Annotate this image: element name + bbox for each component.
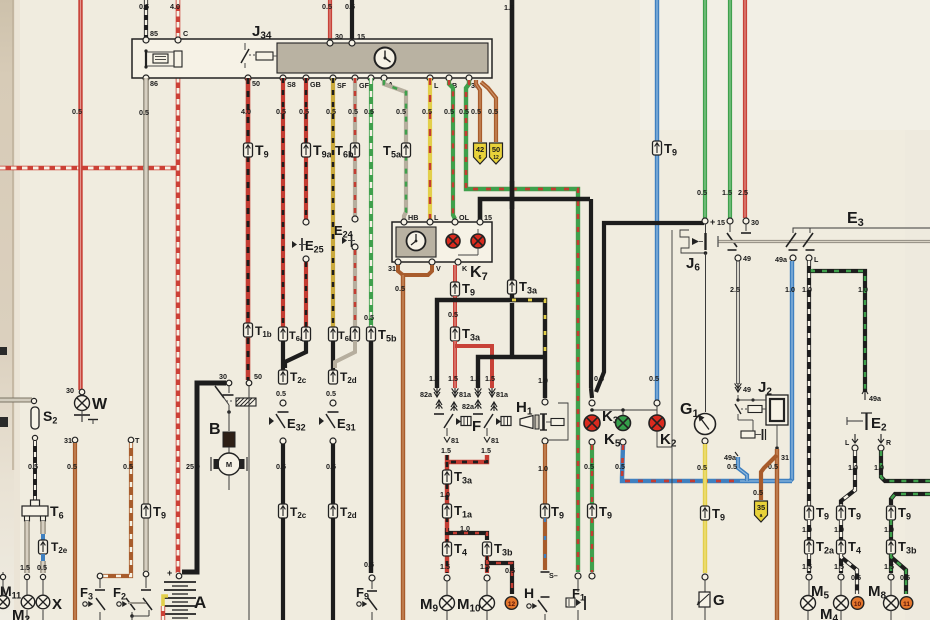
wire red/white striped horizontal feed y=168	[0, 166, 176, 171]
black wire 25.0 from terminal 30 to battery	[182, 383, 226, 572]
wire black/green from E2 R via edge	[881, 451, 930, 481]
wire white 2.5 from 49 to J2	[736, 261, 738, 384]
wire black x=352 terminal 15	[350, 0, 354, 44]
svg-text:0.5: 0.5	[395, 284, 405, 293]
svg-text:L: L	[434, 213, 439, 222]
svg-text:H: H	[524, 585, 534, 601]
svg-text:F: F	[472, 418, 481, 435]
svg-text:1.5: 1.5	[485, 374, 495, 383]
svg-text:1.0: 1.0	[440, 490, 450, 499]
lamp M4	[834, 596, 849, 611]
black branch to second 82a arrow	[478, 357, 545, 388]
J34 bottom terminals	[143, 75, 149, 81]
wire green/red under K3	[589, 439, 595, 445]
svg-text:1.0: 1.0	[538, 464, 548, 473]
svg-text:2.5: 2.5	[730, 285, 740, 294]
svg-text:0.5: 0.5	[364, 560, 374, 569]
wire blue x=657 from top to relay K2	[655, 0, 659, 400]
svg-text:15: 15	[717, 218, 725, 227]
svg-text:0.5: 0.5	[322, 2, 332, 11]
warning lamp in K7 right	[471, 234, 485, 248]
wire red x=455 and branch to 81a arrows	[453, 341, 457, 388]
svg-text:+: +	[167, 568, 172, 578]
svg-text:0.5: 0.5	[326, 389, 336, 398]
svg-text:4.0: 4.0	[241, 107, 251, 116]
svg-text:82a: 82a	[462, 402, 475, 411]
wire green/red striped x=466 terminal 31 feed to F1	[466, 80, 578, 572]
wire black x=371 from T5b to switch F9	[369, 341, 373, 573]
red/white stub under battery	[161, 606, 165, 620]
wire red x=330 terminal 30	[328, 0, 332, 44]
svg-text:W: W	[92, 396, 108, 413]
svg-text:82a: 82a	[420, 390, 433, 399]
J34 top terminals	[143, 37, 149, 43]
control unit J6	[671, 230, 673, 620]
svg-text:L: L	[814, 255, 819, 264]
wire black/green from L to 49a arrow	[812, 269, 865, 392]
svg-text:1.0: 1.0	[802, 285, 812, 294]
svg-text:0.5: 0.5	[584, 462, 594, 471]
svg-text:49a: 49a	[775, 255, 788, 264]
svg-text:0.5: 0.5	[753, 488, 763, 497]
connector T9 on K3 wire	[588, 504, 597, 518]
svg-text:0.5: 0.5	[276, 107, 286, 116]
svg-text:30: 30	[751, 218, 759, 227]
svg-text:30: 30	[335, 32, 343, 41]
svg-text:0.5: 0.5	[649, 374, 659, 383]
svg-text:0.5: 0.5	[615, 462, 625, 471]
wire blue/red under K5	[620, 439, 626, 445]
connector T3a on black wire x=512	[508, 280, 517, 294]
svg-text:0.5: 0.5	[276, 462, 286, 471]
wire brown horn to T9 and S-	[543, 444, 547, 505]
svg-text:HB: HB	[408, 213, 418, 222]
svg-text:0.5: 0.5	[422, 107, 432, 116]
svg-text:15: 15	[357, 32, 365, 41]
svg-text:81a: 81a	[496, 390, 509, 399]
svg-text:1.5: 1.5	[884, 562, 894, 571]
switch inside J34	[244, 43, 246, 50]
svg-text:1.0: 1.0	[802, 525, 812, 534]
connector T6	[31, 500, 40, 507]
terminal 50 of starter switch	[246, 380, 252, 386]
relay J34 internals	[145, 50, 147, 67]
lamp M5	[801, 596, 816, 611]
svg-text:31: 31	[781, 453, 789, 462]
thin wire from switch to motor	[248, 398, 250, 620]
wire red x=745 terminal 30	[743, 0, 747, 218]
column M8 black/green x=891	[887, 506, 896, 520]
relay K2 frame link	[657, 431, 672, 447]
svg-text:15: 15	[484, 213, 492, 222]
wire yellow/red striped x=430 L to K7	[428, 78, 432, 219]
fuse S2	[31, 407, 39, 429]
svg-text:0.5: 0.5	[67, 462, 77, 471]
svg-text:0.5: 0.5	[348, 107, 358, 116]
column M4 black/white x=841	[837, 506, 846, 520]
wire red/white striped battery feed C->A+ x=178	[176, 0, 181, 573]
flag connector 42	[474, 143, 487, 164]
svg-text:1.5: 1.5	[481, 446, 491, 455]
svg-text:30: 30	[66, 386, 74, 395]
svg-text:1.5: 1.5	[441, 446, 451, 455]
svg-text:S–: S–	[549, 571, 558, 580]
svg-text:1.0: 1.0	[460, 524, 470, 533]
wire green/red striped x=453 B to K7 OL	[449, 80, 455, 219]
svg-text:0.5: 0.5	[139, 2, 149, 11]
svg-text:6: 6	[479, 155, 482, 161]
wire green/white striped x=371 to T5b	[369, 78, 373, 327]
svg-text:0.5: 0.5	[326, 107, 336, 116]
svg-text:0.5: 0.5	[727, 462, 737, 471]
svg-text:86: 86	[150, 79, 158, 88]
wire gray/red x=355 from E24 merging into T2d	[353, 250, 357, 327]
svg-text:50: 50	[492, 145, 500, 154]
svg-text:1.5: 1.5	[448, 374, 458, 383]
svg-text:M: M	[226, 460, 232, 469]
wire green/red x=578 lower part and F1	[575, 573, 581, 579]
svg-text:GB: GB	[310, 80, 321, 89]
wire brown branch to flag 35	[761, 455, 777, 500]
black wire x=512 crossing over green rail	[510, 181, 515, 209]
switch F2	[143, 571, 149, 577]
black rail x=591 down toward K3	[589, 199, 593, 388]
svg-text:0.5: 0.5	[364, 313, 374, 322]
svg-text:31: 31	[64, 436, 72, 445]
lamp M8	[884, 596, 899, 611]
svg-text:35: 35	[757, 503, 765, 512]
svg-text:1.0: 1.0	[848, 463, 858, 472]
wire red/black from F down to lamps M9 M10	[447, 455, 487, 462]
yellow link at battery	[163, 596, 168, 606]
brown bridge 31-V under K7 and wire down	[398, 265, 432, 275]
thin link wire between K3 K5 K2	[592, 409, 657, 411]
svg-text:1.5: 1.5	[834, 562, 844, 571]
flag connector 50	[490, 143, 503, 164]
svg-text:0.5: 0.5	[299, 107, 309, 116]
wire end arrows 81a	[454, 388, 456, 397]
svg-text:B: B	[209, 421, 221, 438]
svg-text:49a: 49a	[869, 394, 882, 403]
svg-text:L: L	[434, 81, 439, 90]
black branch from T3a to 82a arrow left	[437, 294, 512, 388]
connector T5a	[402, 143, 411, 157]
left edge marks	[0, 347, 7, 355]
starter switch	[228, 386, 230, 393]
svg-text:OL: OL	[459, 213, 470, 222]
svg-text:1.0: 1.0	[785, 285, 795, 294]
flag connector 35	[755, 501, 768, 522]
svg-text:0.5: 0.5	[697, 463, 707, 472]
relay K5	[616, 416, 631, 431]
svg-text:1.5: 1.5	[20, 563, 30, 572]
svg-text:1.5: 1.5	[504, 3, 514, 12]
contact under lamp W	[81, 410, 83, 414]
rod link of switches	[718, 240, 930, 243]
column M5 black/white x=809	[805, 506, 814, 520]
wire black/white x=35 to connector T6	[33, 441, 37, 503]
dimmer E2	[847, 420, 863, 422]
branch black/white to connector 10	[841, 554, 857, 594]
svg-text:1.5: 1.5	[470, 374, 480, 383]
black plus rail to J6	[702, 218, 708, 224]
wire green x=730 to ignition switch 15	[728, 0, 732, 218]
wire blue x=43 with T2e	[40, 521, 45, 534]
connector T1b	[244, 323, 253, 337]
svg-text:0.5: 0.5	[364, 107, 374, 116]
wires to lamp M9 M10	[485, 556, 489, 573]
horn frame lines	[548, 403, 568, 440]
svg-text:T: T	[135, 436, 140, 445]
wire yellow/black striped x=333 terminal SF	[331, 78, 335, 327]
svg-text:1.0: 1.0	[858, 285, 868, 294]
ignition switch 15-49	[729, 224, 731, 232]
svg-text:81: 81	[451, 436, 459, 445]
K7 terminals	[401, 219, 407, 225]
clock symbol in instrument strip	[375, 48, 396, 69]
svg-text:49a: 49a	[724, 453, 737, 462]
svg-text:0.5: 0.5	[459, 107, 469, 116]
wire red/black striped x=248 terminal 50 to starter switch	[246, 78, 251, 380]
clock in K7	[407, 232, 426, 251]
svg-text:0.5: 0.5	[345, 2, 355, 11]
svg-text:30: 30	[219, 372, 227, 381]
relay K2	[649, 415, 665, 431]
svg-text:85: 85	[150, 29, 158, 38]
wire red x=80 to lamp W	[78, 0, 82, 390]
sender G	[699, 592, 710, 607]
wire blue horizontal y=483	[740, 479, 792, 483]
svg-text:K: K	[462, 264, 468, 273]
wire gray horizontal to fuse S2	[0, 398, 32, 403]
black rail from J6 plus line x=604 toward K3	[596, 223, 704, 392]
arrows 81 under F	[446, 428, 448, 436]
connector T9 on blue wire	[653, 141, 662, 155]
svg-text:0.5: 0.5	[139, 108, 149, 117]
svg-text:0.5: 0.5	[276, 389, 286, 398]
svg-text:11: 11	[903, 601, 910, 608]
svg-text:C: C	[183, 29, 188, 38]
wire black x=283 from E32 down	[281, 444, 285, 505]
svg-text:0.5: 0.5	[697, 188, 707, 197]
switch E25	[303, 219, 309, 225]
wire black/red to connector 12	[487, 560, 512, 594]
svg-text:31: 31	[388, 264, 396, 273]
svg-text:1.0: 1.0	[538, 376, 548, 385]
wire red x=455 from K7 K down	[453, 265, 457, 283]
wire black/white striped x=146 terminal 85	[144, 0, 148, 40]
wire green x=705 to J6 plus	[703, 0, 707, 218]
wire red/black x=306 from E25 to T2c merge	[304, 262, 308, 327]
svg-text:L: L	[845, 440, 850, 447]
svg-text:GF: GF	[359, 81, 370, 90]
round connector 12	[505, 597, 518, 610]
svg-text:0.5: 0.5	[900, 573, 910, 582]
switch E31	[319, 417, 324, 425]
black/yellow wire from T3a to horn H1	[512, 300, 545, 355]
connector T9a	[302, 143, 311, 157]
svg-text:0.5: 0.5	[488, 107, 498, 116]
switch F9	[371, 581, 373, 589]
svg-text:0.5: 0.5	[448, 310, 458, 319]
svg-text:V: V	[436, 264, 441, 273]
svg-text:SF: SF	[337, 81, 347, 90]
svg-text:1.5: 1.5	[722, 188, 732, 197]
svg-text:0.5: 0.5	[326, 462, 336, 471]
switch E3 blades	[786, 233, 796, 247]
svg-text:4.0: 4.0	[170, 2, 180, 11]
svg-text:10: 10	[854, 601, 862, 608]
svg-text:1.0: 1.0	[834, 525, 844, 534]
wire red/black striped x=283 terminal S8	[281, 78, 285, 327]
wire black x=512 from top to connector T3a	[510, 0, 515, 281]
relay K3	[584, 415, 600, 431]
connector T9 on gray wire	[142, 504, 151, 518]
connector T6a	[279, 327, 288, 341]
svg-text:0.5: 0.5	[396, 107, 406, 116]
wire black x=333 from E31 down	[331, 444, 335, 505]
svg-text:50: 50	[252, 79, 260, 88]
svg-text:1.0: 1.0	[874, 463, 884, 472]
svg-text:1.5: 1.5	[440, 562, 450, 571]
switch E32	[269, 417, 274, 425]
wire black x=283 below T6a to horn switch E32	[281, 341, 285, 371]
svg-text:50: 50	[254, 372, 262, 381]
svg-text:81a: 81a	[459, 390, 472, 399]
warning lamp in K7 left	[446, 234, 460, 248]
svg-text:X: X	[52, 596, 62, 613]
svg-text:0.5: 0.5	[471, 107, 481, 116]
svg-text:0.5: 0.5	[37, 563, 47, 572]
svg-text:S8: S8	[287, 80, 296, 89]
svg-text:49: 49	[743, 385, 751, 394]
svg-text:0.5: 0.5	[505, 566, 515, 575]
svg-text:25.0: 25.0	[186, 462, 200, 471]
svg-text:G: G	[713, 592, 725, 609]
wire brown pair from terminal 31 to flag connectors	[476, 80, 480, 142]
starter motor	[218, 453, 240, 475]
wire gray x=27 from T6	[24, 521, 29, 573]
wire black/white from E2 L	[841, 451, 855, 507]
connector T6b on GF wire	[351, 143, 360, 157]
wire black x=333 to E31	[331, 341, 335, 371]
wire black/white x=809 from L	[807, 261, 811, 507]
black line from 15-rail into K7 terminal 15	[480, 199, 590, 219]
svg-text:+: +	[710, 217, 715, 227]
wire gray x=146 terminal 86 to F2	[143, 78, 148, 571]
relay J34 box	[132, 39, 492, 78]
wire gray/green striped terminal A to K7 HB	[384, 80, 406, 219]
wire blue x=792 49a to flasher circuit	[790, 261, 792, 481]
svg-text:12: 12	[508, 601, 516, 608]
svg-text:A: A	[194, 593, 206, 612]
svg-text:0.5: 0.5	[851, 573, 861, 582]
svg-text:42: 42	[476, 145, 484, 154]
wire gray/red striped x=355 terminal GF to E24	[353, 78, 357, 216]
svg-text:1.5: 1.5	[429, 374, 439, 383]
svg-text:0.5: 0.5	[28, 462, 38, 471]
svg-text:49: 49	[743, 254, 751, 263]
svg-text:0.5: 0.5	[72, 107, 82, 116]
branch to T3b	[447, 528, 487, 540]
svg-text:2.5: 2.5	[738, 188, 748, 197]
terminal T and brown/white wire x=131	[128, 437, 134, 443]
connector T9 on wire 50	[244, 143, 253, 157]
svg-text:R: R	[886, 440, 891, 447]
svg-text:a: a	[760, 513, 763, 519]
svg-text:1.0: 1.0	[884, 525, 894, 534]
branch black/green to connector 11	[891, 554, 906, 594]
unit K7 box	[392, 222, 492, 262]
wire yellow from G1 to sender G	[703, 444, 707, 573]
switch F contacts	[438, 400, 440, 409]
svg-text:0.5: 0.5	[594, 374, 604, 383]
svg-text:0.5: 0.5	[444, 107, 454, 116]
svg-text:12: 12	[493, 155, 499, 161]
svg-text:81: 81	[491, 436, 499, 445]
svg-text:0.5: 0.5	[123, 462, 133, 471]
wire red/black striped x=306 terminal GB to E25	[304, 78, 308, 219]
switch E24	[352, 216, 358, 222]
svg-text:1.5: 1.5	[802, 562, 812, 571]
